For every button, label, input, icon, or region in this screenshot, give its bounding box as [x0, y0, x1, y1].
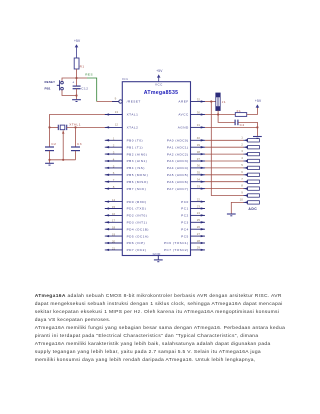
pin PC0 stub: [191, 200, 206, 202]
pin name PD6 (ICP): [127, 241, 146, 245]
wire ADC pin 10 to ground: [231, 202, 243, 213]
pin number 37: [197, 157, 201, 161]
wire PA4 to ADC pin 5: [205, 167, 244, 169]
svg-text:38: 38: [197, 150, 201, 154]
svg-text:ADC: ADC: [248, 207, 257, 211]
pin number 34: [197, 178, 201, 182]
pin number 39: [197, 143, 201, 147]
pin number 21: [112, 246, 116, 250]
wire C4 to AGND net: [238, 122, 257, 127]
svg-text:PB7 (SCK): PB7 (SCK): [127, 187, 147, 191]
connector pin number 7: [241, 177, 243, 181]
svg-text:30: 30: [197, 110, 201, 114]
pin name PA0 (ADC0): [167, 139, 189, 143]
ground (AGND): [253, 137, 262, 139]
pin PA3 (ADC3) stub: [191, 160, 206, 162]
svg-text:PA7 (ADC7): PA7 (ADC7): [167, 187, 189, 191]
junction C3 top: [74, 126, 76, 128]
capacitor C3: [71, 147, 80, 151]
label RESET: [45, 80, 56, 84]
push button S1 RESET: [57, 80, 64, 90]
pin number 16: [112, 212, 116, 216]
wire PA6 to ADC pin 7: [205, 181, 244, 183]
svg-text:PA3 (ADC3): PA3 (ADC3): [167, 159, 189, 163]
pin number 12: [115, 123, 119, 127]
wire node to switch top: [62, 78, 77, 81]
pin number 33: [197, 184, 201, 188]
pin name PA5 (ADC5): [167, 173, 189, 177]
svg-text:37: 37: [197, 157, 201, 161]
ground (IC): [154, 260, 163, 262]
svg-text:36: 36: [197, 164, 201, 168]
pin name PA1 (ADC1): [167, 145, 189, 149]
svg-text:PC2: PC2: [181, 214, 189, 218]
pin name PB2 (AIN0): [127, 152, 148, 156]
pin name AVCC: [178, 113, 189, 117]
pin number 7: [113, 178, 115, 182]
svg-text:+: +: [72, 81, 74, 85]
pin name PA3 (ADC3): [167, 159, 189, 163]
svg-text:9: 9: [115, 96, 117, 100]
svg-text:PD2 (INT0): PD2 (INT0): [127, 214, 148, 218]
connector ADC pin 10 lead: [244, 201, 260, 204]
svg-text:29: 29: [197, 246, 201, 250]
pin number 35: [197, 171, 201, 175]
wire C2 to rail: [49, 151, 51, 160]
capacitor C2: [45, 147, 54, 151]
svg-text:14: 14: [112, 198, 116, 202]
wire F1 to +5V: [247, 108, 258, 115]
svg-text:7: 7: [241, 177, 243, 181]
svg-text:PA4 (ADC4): PA4 (ADC4): [167, 166, 189, 170]
pin name PA2 (ADC2): [167, 152, 189, 156]
svg-text:3: 3: [241, 149, 243, 153]
connector pin number 4: [241, 156, 243, 160]
label IC1: [122, 77, 128, 81]
wire crystal to XTAL2 pin: [67, 126, 107, 128]
pin PB5 (MOSI) stub: [105, 174, 123, 176]
svg-text:9: 9: [241, 191, 243, 195]
svg-text:17: 17: [112, 219, 116, 223]
svg-text:1: 1: [241, 135, 243, 139]
svg-text:C4: C4: [240, 123, 245, 127]
junction rail mid: [62, 159, 64, 161]
pin name PC5: [181, 234, 189, 238]
pin name AGND: [178, 126, 189, 130]
svg-text:GND: GND: [153, 252, 162, 256]
pin number 3: [113, 151, 115, 155]
svg-text:AREF: AREF: [178, 100, 188, 104]
svg-text:6: 6: [241, 170, 243, 174]
svg-text:F1: F1: [237, 109, 242, 113]
svg-text:32: 32: [197, 97, 201, 101]
pin name PD7 (OC2): [127, 248, 147, 252]
wire AVCC to C4: [218, 115, 235, 123]
svg-text:2: 2: [241, 142, 243, 146]
svg-text:PD0 (RXD): PD0 (RXD): [127, 200, 147, 204]
wire J1 to AVCC: [217, 111, 219, 115]
svg-text:PB6 (MISO): PB6 (MISO): [127, 180, 149, 184]
svg-text:26: 26: [197, 225, 201, 229]
junction rail left: [48, 159, 50, 161]
label PB1: [45, 87, 51, 91]
power +5V (AVCC): [255, 99, 262, 108]
svg-text:27: 27: [197, 232, 201, 236]
pin number 26: [197, 225, 201, 229]
svg-text:13: 13: [115, 110, 119, 114]
wire AREF: [205, 101, 218, 103]
ground (reset): [72, 100, 81, 102]
pin PC5 stub: [191, 235, 206, 237]
pin PB3 (AIN1) stub: [105, 160, 123, 162]
connector pin number 10: [240, 198, 244, 202]
net label RES: [85, 73, 93, 77]
svg-text:PD5 (OC1A): PD5 (OC1A): [127, 234, 149, 238]
ground (crystal): [45, 163, 54, 165]
pin name PD5 (OC1A): [127, 234, 149, 238]
wire ground rail: [50, 159, 76, 161]
wire to C3: [75, 127, 77, 146]
svg-text:PA2 (ADC2): PA2 (ADC2): [167, 152, 189, 156]
svg-text:PA1 (ADC1): PA1 (ADC1): [167, 145, 189, 149]
wire AGND to ground: [256, 127, 258, 136]
svg-text:25: 25: [197, 218, 201, 222]
wire net RES green: [87, 78, 97, 102]
label ADC: [248, 207, 257, 211]
pin PA5 (ADC5) stub: [191, 174, 206, 176]
label XTAL1: [69, 123, 81, 127]
junction AVCC: [217, 113, 219, 115]
svg-text:RES: RES: [85, 73, 93, 77]
pin name PB1 (T1): [127, 145, 143, 149]
label C4: [240, 123, 245, 127]
pin name PC2: [181, 214, 189, 218]
pin name PB0 (T0): [127, 139, 143, 143]
pin VCC label: [155, 83, 163, 87]
pin GND label: [153, 252, 162, 256]
capacitor C12: [72, 78, 80, 96]
svg-text:PC7 (TOSC2): PC7 (TOSC2): [164, 248, 189, 252]
wire rail to ground: [49, 160, 51, 163]
pin PA0 (ADC0) stub: [191, 139, 206, 141]
svg-text:RESET: RESET: [45, 80, 56, 84]
wire RES to IC reset pin: [97, 101, 119, 103]
pin number 13: [115, 110, 119, 114]
svg-text:8: 8: [241, 184, 243, 188]
svg-text:PA0 (ADC0): PA0 (ADC0): [167, 139, 189, 143]
pin number 40: [197, 136, 201, 140]
svg-text:IC1: IC1: [122, 77, 128, 81]
pin PD1 (TXD) stub: [105, 207, 123, 209]
pin PB4 (/SS) stub: [105, 167, 123, 169]
pin XTAL2 stub: [105, 126, 123, 128]
svg-text:PB0 (T0): PB0 (T0): [127, 139, 143, 143]
svg-text:PC4: PC4: [181, 227, 189, 231]
svg-text:5: 5: [241, 163, 243, 167]
pin name AREF: [178, 100, 188, 104]
junction AGND: [256, 126, 258, 128]
svg-text:21: 21: [112, 246, 116, 250]
svg-text:PC3: PC3: [181, 221, 189, 225]
power +5V (reset pull-up): [74, 39, 81, 58]
connector pin number 6: [241, 170, 243, 174]
pin PB1 (T1) stub: [105, 146, 123, 148]
pin XTAL1 stub: [105, 113, 123, 115]
pin name PA6 (ADC6): [167, 180, 189, 184]
pin number 23: [197, 204, 201, 208]
svg-text:PB3 (AIN1): PB3 (AIN1): [127, 159, 148, 163]
svg-text:PB1: PB1: [45, 87, 51, 91]
pin number 15: [112, 205, 116, 209]
svg-text:20: 20: [112, 239, 116, 243]
pin PA1 (ADC1) stub: [191, 146, 206, 148]
IC IC1 ATmega8535 body: [122, 82, 190, 256]
svg-text:/RESET: /RESET: [127, 100, 141, 104]
svg-text:12: 12: [115, 123, 119, 127]
svg-text:34: 34: [197, 178, 201, 182]
pin PC2 stub: [191, 214, 206, 216]
pin name PD3 (INT1): [127, 221, 148, 225]
svg-text:PA6 (ADC6): PA6 (ADC6): [167, 180, 189, 184]
pin name PA4 (ADC4): [167, 166, 189, 170]
pin /RESET bubble: [112, 100, 122, 103]
connector ADC pin 5 lead: [244, 166, 260, 169]
svg-text:PD3 (INT1): PD3 (INT1): [127, 221, 148, 225]
svg-text:J1: J1: [222, 100, 226, 104]
pin number 2: [113, 144, 115, 148]
pin AREF stub: [191, 100, 206, 102]
svg-text:18: 18: [112, 226, 116, 230]
pin name PC4: [181, 227, 189, 231]
pin name PC0: [181, 200, 189, 204]
wire PA1 to ADC pin 2: [205, 146, 244, 148]
svg-text:ATmega8535: ATmega8535: [144, 90, 179, 96]
svg-text:R1: R1: [80, 65, 85, 69]
pin number 8: [113, 185, 115, 189]
pin number 4: [113, 157, 115, 161]
pin number 25: [197, 218, 201, 222]
pin name PB3 (AIN1): [127, 159, 148, 163]
svg-text:PD6 (ICP): PD6 (ICP): [127, 241, 146, 245]
connector ADC pin 1 lead: [244, 139, 260, 142]
svg-text:19: 19: [112, 233, 116, 237]
pin AGND stub: [191, 126, 206, 128]
pin name PB7 (SCK): [127, 187, 147, 191]
svg-text:PD7 (OC2): PD7 (OC2): [127, 248, 147, 252]
pin name XTAL1: [127, 113, 139, 117]
connector pin number 9: [241, 191, 243, 195]
pin PC6 (TOSC1) stub: [191, 242, 206, 244]
wire R1 to node RES: [76, 69, 78, 78]
pin name PC6 (TOSC1): [164, 241, 189, 245]
pin number 32: [197, 97, 201, 101]
svg-text:16: 16: [112, 212, 116, 216]
ground (ADC): [227, 214, 236, 216]
pin number 17: [112, 219, 116, 223]
connector ADC pin 7 lead: [244, 180, 260, 183]
svg-text:C2: C2: [51, 142, 56, 146]
pin name PB4 (/SS): [127, 166, 145, 170]
pin name PB6 (MISO): [127, 180, 149, 184]
svg-text:XTAL2: XTAL2: [127, 126, 139, 130]
connector pin number 3: [241, 149, 243, 153]
svg-text:PD4 (OC1B): PD4 (OC1B): [127, 227, 149, 231]
pin number 36: [197, 164, 201, 168]
connector ADC pin 4 lead: [244, 159, 260, 162]
pin name PB5 (MOSI): [127, 173, 149, 177]
svg-text:AGND: AGND: [178, 126, 189, 130]
pin name PC1: [181, 207, 189, 211]
pin number 22: [197, 197, 201, 201]
wire AGND: [205, 126, 257, 128]
pin PD3 (INT1) stub: [105, 221, 123, 223]
wire PA3 to ADC pin 4: [205, 160, 244, 162]
wire C3 to rail: [75, 151, 77, 160]
pin number 38: [197, 150, 201, 154]
svg-text:PA5 (ADC5): PA5 (ADC5): [167, 173, 189, 177]
label C3: [77, 142, 82, 146]
pin name PD4 (OC1B): [127, 227, 149, 231]
svg-text:PB2 (AIN0): PB2 (AIN0): [127, 152, 148, 156]
capacitor C4: [235, 120, 238, 126]
pin PA6 (ADC6) stub: [191, 181, 206, 183]
wire node RES right: [77, 77, 88, 79]
connector ADC pin 8 lead: [244, 187, 260, 190]
wire crystal case down: [62, 130, 65, 159]
pin name PD0 (RXD): [127, 200, 147, 204]
svg-text:+5V: +5V: [156, 69, 163, 73]
pin PC1 stub: [191, 207, 206, 209]
pin PD6 (ICP) stub: [105, 242, 123, 244]
svg-text:+5V: +5V: [74, 39, 81, 43]
svg-text:PC5: PC5: [181, 234, 189, 238]
pin PB0 (T0) stub: [105, 139, 123, 141]
label C2: [51, 142, 56, 146]
wire PA5 to ADC pin 6: [205, 174, 244, 176]
svg-text:XTAL1: XTAL1: [69, 123, 81, 127]
svg-text:C12: C12: [81, 87, 88, 91]
pin number 31: [197, 123, 201, 127]
wire PA0 to ADC pin 1: [205, 139, 244, 141]
pin number 29: [197, 246, 201, 250]
svg-text:28: 28: [197, 239, 201, 243]
pin name PA7 (ADC7): [167, 187, 189, 191]
svg-text:15: 15: [112, 205, 116, 209]
pin number 18: [112, 226, 116, 230]
pin PC4 stub: [191, 228, 206, 230]
svg-text:XTAL1: XTAL1: [127, 113, 139, 117]
wire PA2 to ADC pin 3: [205, 153, 244, 155]
svg-text:VCC: VCC: [155, 83, 163, 87]
pin name PC7 (TOSC2): [164, 248, 189, 252]
junction C12 bottom: [75, 94, 77, 96]
connector pin number 5: [241, 163, 243, 167]
pin PD0 (RXD) stub: [105, 200, 123, 202]
label J1: [222, 100, 226, 104]
label R1: [80, 65, 85, 69]
wire PA7 to ADC pin 8: [205, 188, 244, 190]
svg-text:35: 35: [197, 171, 201, 175]
connector ADC pin 6 lead: [244, 173, 260, 176]
pin number 1: [113, 137, 115, 141]
connector pin number 8: [241, 184, 243, 188]
pin number 20: [112, 239, 116, 243]
pin PB6 (MISO) stub: [105, 181, 123, 183]
svg-text:PD1 (TXD): PD1 (TXD): [127, 207, 147, 211]
pin number 24: [197, 211, 201, 215]
svg-text:PC0: PC0: [181, 200, 189, 204]
connector pin number 2: [241, 142, 243, 146]
connector pin number 1: [241, 135, 243, 139]
pin number 28: [197, 239, 201, 243]
wire switch bottom to gnd rail: [62, 90, 77, 95]
wire XTAL1 net: [50, 115, 108, 128]
pin number 9: [115, 96, 117, 100]
svg-text:PB5 (MOSI): PB5 (MOSI): [127, 173, 149, 177]
resistor R1: [74, 58, 79, 69]
svg-text:22: 22: [197, 197, 201, 201]
pin GND stub: [157, 256, 159, 260]
junction crystal left: [48, 126, 50, 128]
svg-text:PB4 (/SS): PB4 (/SS): [127, 166, 145, 170]
wire AREF to ADC pin 9: [211, 102, 243, 196]
svg-text:33: 33: [197, 184, 201, 188]
svg-text:10: 10: [240, 198, 244, 202]
pin number 27: [197, 232, 201, 236]
jumper J1: [216, 93, 220, 111]
wire to ground: [76, 96, 78, 100]
wire to C2: [49, 127, 51, 146]
junction AREF: [210, 100, 212, 102]
pin PA2 (ADC2) stub: [191, 153, 206, 155]
pin number 5: [113, 164, 115, 168]
connector ADC pin 9 lead: [244, 194, 260, 197]
svg-text:PC6 (TOSC1): PC6 (TOSC1): [164, 241, 189, 245]
connector ADC pin 2 lead: [244, 146, 260, 149]
pin PC7 (TOSC2) stub: [191, 249, 206, 251]
pin number 19: [112, 233, 116, 237]
svg-text:40: 40: [197, 136, 201, 140]
pin PB7 (SCK) stub: [105, 187, 123, 189]
svg-text:31: 31: [197, 123, 201, 127]
pin name XTAL2: [127, 126, 139, 130]
power +5V (VCC): [156, 69, 163, 82]
svg-text:23: 23: [197, 204, 201, 208]
svg-text:PB1 (T1): PB1 (T1): [127, 145, 143, 149]
label F1: [237, 109, 242, 113]
paragraph text: [35, 293, 285, 365]
svg-text:39: 39: [197, 143, 201, 147]
pin PC3 stub: [191, 221, 206, 223]
connector ADC pin 3 lead: [244, 152, 260, 155]
pin name PC3: [181, 221, 189, 225]
pin AVCC stub: [191, 113, 206, 115]
pin PA7 (ADC7) stub: [191, 187, 206, 189]
junction node RES: [75, 77, 77, 79]
fuse F1: [235, 113, 246, 117]
label ATmega8535: [144, 90, 179, 96]
svg-text:PC1: PC1: [181, 207, 189, 211]
wire to crystal: [50, 126, 59, 128]
svg-text:+5V: +5V: [255, 99, 262, 103]
wire AVCC: [205, 114, 235, 116]
pin name /RESET: [127, 100, 141, 104]
svg-text:24: 24: [197, 211, 201, 215]
pin number 6: [113, 171, 115, 175]
pin PB2 (AIN0) stub: [105, 153, 123, 155]
pin number 30: [197, 110, 201, 114]
svg-text:AVCC: AVCC: [178, 113, 189, 117]
